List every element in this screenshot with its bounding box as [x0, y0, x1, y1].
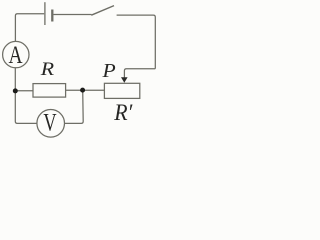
svg-text:R: R	[40, 59, 55, 79]
resistor R box	[33, 84, 66, 98]
battery B1 short plate	[51, 10, 53, 22]
slider P arrowhead	[121, 77, 128, 83]
wire resistor to node B and rheostat	[66, 89, 105, 91]
wire left node to resistor R	[15, 90, 33, 92]
wire switch contact to top-right corner and down	[117, 15, 156, 69]
wire right corner to slider stem	[124, 69, 155, 79]
wire ammeter to left node	[14, 68, 16, 91]
wire top-left segment	[15, 14, 44, 42]
rheostat R' box	[104, 83, 139, 98]
wire left node down to voltmeter row	[15, 91, 37, 123]
voltmeter V1 circle	[37, 110, 65, 138]
svg-text:P: P	[101, 59, 116, 82]
node A junction dot	[13, 88, 18, 93]
ammeter A1 circle	[3, 41, 29, 67]
svg-text:A: A	[9, 41, 24, 69]
switch S1 blade	[91, 6, 114, 16]
battery B1 long plate	[44, 2, 46, 25]
svg-text:R′: R′	[113, 99, 133, 125]
wire battery to switch	[54, 14, 92, 16]
wire voltmeter to node B	[65, 90, 84, 123]
svg-text:V: V	[43, 109, 56, 136]
node B junction dot	[80, 88, 85, 93]
